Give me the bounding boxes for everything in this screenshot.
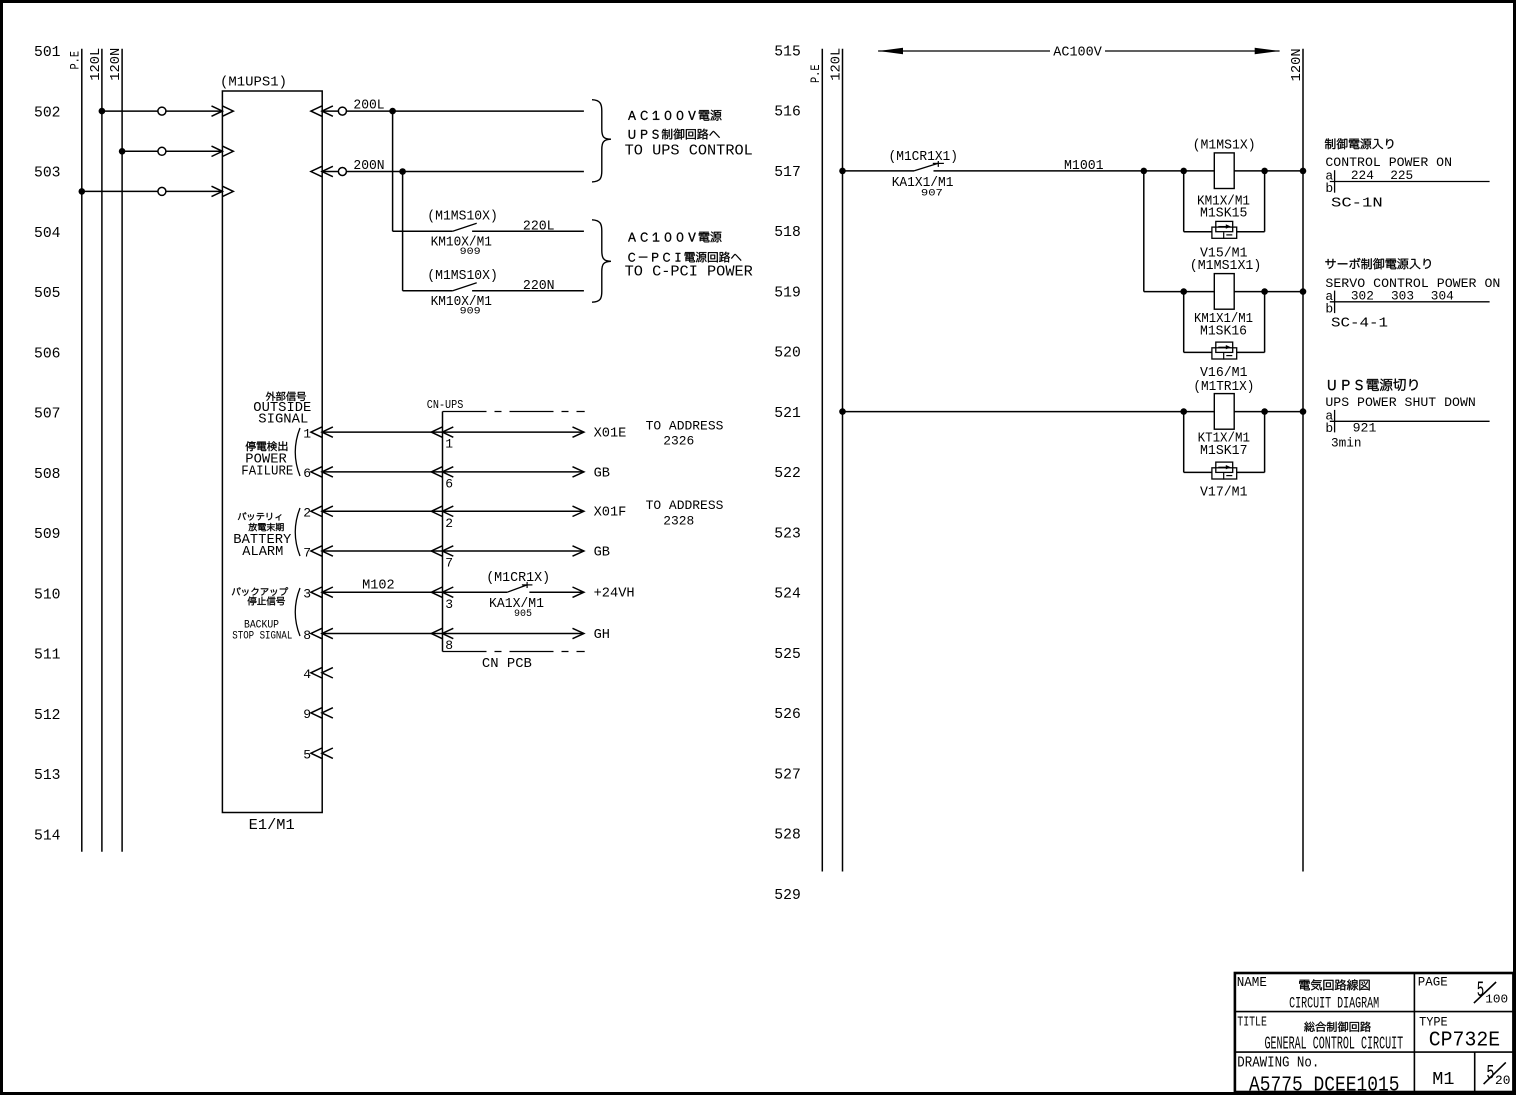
svg-text:100: 100 — [1485, 994, 1508, 1007]
svg-text:907: 907 — [921, 188, 943, 199]
svg-text:200N: 200N — [353, 158, 384, 174]
svg-text:(M1MS10X): (M1MS10X) — [427, 208, 498, 224]
svg-text:526: 526 — [774, 707, 801, 723]
wire UPS pin 2 to CN-UPS / signal X01F — [303, 506, 626, 531]
wire UPS pin 1 to CN-UPS / signal X01E — [303, 426, 626, 451]
net 120N (left rail) — [108, 48, 124, 852]
svg-text:M1SK17: M1SK17 — [1200, 443, 1248, 459]
wire 200L drop to 220L branch — [392, 111, 394, 231]
svg-text:9: 9 — [303, 707, 311, 722]
UPS pin 4 stub — [303, 667, 333, 682]
svg-text:CIRCUIT DIAGRAM: CIRCUIT DIAGRAM — [1289, 995, 1379, 1013]
label power failure — [241, 441, 293, 479]
svg-text:(M1TR1X): (M1TR1X) — [1193, 379, 1254, 395]
svg-text:512: 512 — [34, 708, 61, 724]
label outside signal (Japanese) — [253, 392, 311, 428]
brace pins 1-6 — [295, 428, 300, 476]
svg-text:(M1CR1X1): (M1CR1X1) — [889, 149, 959, 165]
svg-text:517: 517 — [774, 165, 801, 181]
svg-text:CN PCB: CN PCB — [482, 656, 532, 672]
wire UPS pin 6 to CN-UPS / signal GB — [303, 466, 610, 491]
svg-text:2: 2 — [303, 506, 311, 521]
wire UPS pin 7 to CN-UPS / signal GB — [303, 545, 610, 570]
svg-text:304: 304 — [1431, 288, 1454, 303]
varistor V15/M1 — [1184, 171, 1265, 262]
coil KM1X1/M1 (M1MS1X1) M1SK16 — [1190, 258, 1262, 340]
svg-text:SIGNAL: SIGNAL — [258, 411, 308, 427]
svg-text:X01E: X01E — [594, 427, 627, 442]
varistor V17/M1 — [1184, 412, 1265, 501]
svg-text:502: 502 — [34, 106, 61, 122]
svg-text:909: 909 — [460, 307, 481, 318]
svg-text:503: 503 — [34, 166, 61, 182]
svg-text:STOP SIGNAL: STOP SIGNAL — [232, 631, 292, 643]
svg-text:521: 521 — [774, 406, 801, 422]
svg-text:3: 3 — [303, 587, 311, 602]
svg-text:FAILURE: FAILURE — [241, 463, 293, 479]
svg-text:TITLE: TITLE — [1237, 1016, 1267, 1031]
svg-text:CN-UPS: CN-UPS — [427, 398, 464, 412]
svg-text:7: 7 — [303, 545, 311, 560]
right grid row labels 515-529 — [774, 44, 801, 904]
svg-text:3: 3 — [445, 597, 453, 612]
svg-text:1: 1 — [303, 426, 311, 441]
brace pins 3-8 — [295, 588, 300, 636]
svg-text:SC-1N: SC-1N — [1331, 196, 1383, 212]
svg-text:(M1MS1X1): (M1MS1X1) — [1190, 258, 1262, 274]
svg-text:b: b — [1325, 421, 1333, 436]
svg-text:TO C-PCI POWER: TO C-PCI POWER — [625, 264, 753, 281]
svg-text:TYPE: TYPE — [1419, 1014, 1448, 1029]
svg-text:515: 515 — [774, 44, 801, 60]
wire 200N drop to 220N branch — [402, 172, 404, 291]
svg-text:X01F: X01F — [594, 506, 627, 521]
svg-text:220N: 220N — [523, 278, 555, 294]
svg-text:8: 8 — [445, 638, 453, 653]
wire 200L output of UPS — [311, 98, 584, 117]
svg-text:AC100V: AC100V — [1053, 45, 1102, 61]
svg-text:1: 1 — [445, 437, 453, 452]
net P.E (left rail) — [68, 49, 83, 852]
svg-text:5: 5 — [303, 748, 311, 763]
svg-text:522: 522 — [774, 466, 801, 482]
svg-text:6: 6 — [445, 477, 453, 492]
svg-text:225: 225 — [1390, 168, 1413, 183]
svg-text:M102: M102 — [362, 577, 395, 593]
svg-text:PAGE: PAGE — [1418, 975, 1448, 990]
svg-text:GB: GB — [594, 466, 610, 481]
svg-text:120N: 120N — [108, 48, 124, 81]
svg-text:M1: M1 — [1432, 1070, 1454, 1090]
svg-text:516: 516 — [774, 105, 801, 121]
note CONTROL POWER ON / SC-1N — [1325, 138, 1490, 211]
svg-text:224: 224 — [1351, 168, 1374, 183]
note SERVO CONTROL POWER ON / SC-4-1 — [1325, 258, 1500, 332]
note UPS POWER SHUT DOWN / 3min — [1325, 379, 1489, 451]
svg-text:302: 302 — [1351, 288, 1374, 303]
svg-text:511: 511 — [34, 648, 61, 664]
wire row 521: 120L to coil KT1X — [839, 408, 1306, 415]
svg-text:3min: 3min — [1331, 435, 1362, 450]
coil KT1X/M1 (M1TR1X) M1SK17 timer — [1193, 379, 1254, 459]
UPS pin 5 stub — [303, 748, 333, 763]
wire 120N to UPS input — [119, 146, 234, 156]
svg-text:(M1MS10X): (M1MS10X) — [427, 268, 498, 284]
svg-text:(M1CR1X): (M1CR1X) — [486, 570, 550, 586]
svg-text:523: 523 — [774, 526, 801, 542]
svg-text:220L: 220L — [523, 218, 555, 234]
svg-text:520: 520 — [774, 346, 801, 362]
svg-text:510: 510 — [34, 587, 61, 603]
svg-text:2: 2 — [445, 516, 453, 531]
svg-text:501: 501 — [34, 45, 61, 61]
svg-text:120N: 120N — [1289, 48, 1305, 81]
svg-text:GB: GB — [594, 545, 610, 560]
svg-text:(M1MS1X): (M1MS1X) — [1193, 138, 1256, 154]
note TO ADDRESS 2326 — [646, 418, 724, 448]
svg-text:120L: 120L — [88, 48, 104, 81]
wire row 519 to 120N — [1180, 288, 1306, 295]
note TO ADDRESS 2328 — [646, 498, 724, 528]
svg-text:ALARM: ALARM — [242, 544, 283, 560]
svg-text:V17/M1: V17/M1 — [1200, 485, 1248, 501]
svg-text:P.E: P.E — [808, 64, 823, 83]
brace: AC100V to UPS control — [592, 100, 611, 182]
dimension arrow AC100V — [878, 45, 1280, 61]
svg-text:(M1UPS1): (M1UPS1) — [220, 75, 287, 91]
brace: AC100V to C-PCI power — [592, 220, 611, 302]
svg-text:GENERAL CONTROL CIRCUIT: GENERAL CONTROL CIRCUIT — [1265, 1034, 1404, 1054]
svg-text:7: 7 — [445, 556, 453, 571]
svg-text:b: b — [1325, 181, 1333, 196]
label AC100V UPS control (Japanese) — [625, 110, 753, 160]
svg-text:303: 303 — [1391, 288, 1414, 303]
coil KM1X/M1 (M1MS1X) M1SK15 — [1193, 138, 1256, 222]
wire drop M1001 row 517 to row 519 — [1143, 171, 1145, 292]
svg-text:TO ADDRESS: TO ADDRESS — [646, 418, 724, 433]
svg-text:TO UPS CONTROL: TO UPS CONTROL — [625, 143, 753, 160]
contact KM10X/M1 (M1MS10X) on 220L — [393, 208, 584, 258]
svg-text:509: 509 — [34, 527, 61, 543]
contact KA1X1/M1 (M1CR1X1) — [889, 149, 959, 199]
svg-text:909: 909 — [460, 247, 481, 258]
svg-text:NAME: NAME — [1237, 976, 1267, 991]
net 120L (left rail) — [88, 48, 104, 852]
svg-text:200L: 200L — [353, 98, 384, 114]
UPS unit E1/M1 (M1UPS1) block outline — [220, 75, 322, 835]
svg-text:507: 507 — [34, 407, 61, 423]
wire UPS pin 3 to CN-UPS / signal +24VH — [303, 587, 634, 612]
svg-text:A5775 DCEE1015: A5775 DCEE1015 — [1249, 1073, 1400, 1095]
svg-text:2328: 2328 — [663, 513, 694, 528]
wire UPS pin 8 to CN-UPS / signal GH — [303, 628, 610, 653]
svg-text:DRAWING No.: DRAWING No. — [1237, 1056, 1319, 1072]
svg-text:BACKUP: BACKUP — [244, 619, 279, 631]
connector CN-UPS bracket — [427, 398, 585, 672]
wire row 517: 120L to coil KM1X — [839, 168, 1306, 175]
svg-text:CONTROL POWER ON: CONTROL POWER ON — [1325, 155, 1452, 170]
svg-text:525: 525 — [774, 647, 801, 663]
contact KM10X/M1 (M1MS10X) on 220N — [403, 268, 584, 318]
wire 120L to UPS input (row 502) — [99, 106, 234, 116]
label battery alarm — [233, 512, 292, 560]
net 120N (right rail) — [1289, 48, 1305, 871]
svg-text:120L: 120L — [829, 48, 845, 81]
svg-text:2326: 2326 — [663, 434, 694, 449]
svg-text:518: 518 — [774, 225, 801, 241]
svg-text:504: 504 — [34, 226, 61, 242]
svg-text:905: 905 — [514, 609, 532, 620]
label AC100V C-PCI power (Japanese) — [625, 232, 753, 281]
svg-text:519: 519 — [774, 285, 801, 301]
net P.E (right rail) — [808, 49, 823, 872]
contact KA1X/M1 (M1CR1X) on +24VH wire — [362, 570, 550, 620]
svg-text:4: 4 — [303, 667, 311, 682]
net 120L (right rail) — [829, 48, 845, 872]
varistor V16/M1 — [1184, 292, 1265, 381]
svg-text:921: 921 — [1353, 421, 1377, 436]
svg-text:508: 508 — [34, 467, 61, 483]
svg-text:M1001: M1001 — [1064, 158, 1104, 174]
svg-text:+24VH: +24VH — [594, 587, 635, 602]
svg-text:SC-4-1: SC-4-1 — [1331, 316, 1388, 332]
svg-text:P.E: P.E — [68, 51, 83, 70]
svg-text:CP732E: CP732E — [1429, 1028, 1500, 1052]
svg-text:527: 527 — [774, 767, 801, 783]
svg-text:b: b — [1325, 302, 1333, 317]
svg-text:TO ADDRESS: TO ADDRESS — [646, 498, 724, 513]
svg-text:528: 528 — [774, 828, 801, 844]
wire 200N output of UPS — [311, 158, 584, 177]
svg-text:8: 8 — [303, 628, 311, 643]
svg-text:505: 505 — [34, 286, 61, 302]
svg-text:513: 513 — [34, 768, 61, 784]
svg-text:E1/M1: E1/M1 — [249, 817, 295, 834]
svg-text:GH: GH — [594, 628, 610, 643]
svg-text:M1SK16: M1SK16 — [1200, 324, 1247, 340]
svg-text:514: 514 — [34, 828, 61, 844]
svg-text:M1SK15: M1SK15 — [1200, 206, 1247, 222]
svg-text:6: 6 — [303, 466, 311, 481]
svg-text:529: 529 — [774, 888, 801, 904]
brace pins 2-7 — [295, 508, 300, 556]
title block — [1235, 973, 1514, 1095]
svg-text:506: 506 — [34, 346, 61, 362]
svg-text:20: 20 — [1495, 1073, 1510, 1088]
label backup stop signal — [232, 587, 292, 642]
wire P.E to UPS input — [79, 186, 234, 196]
svg-text:UPS POWER SHUT DOWN: UPS POWER SHUT DOWN — [1325, 395, 1475, 410]
svg-text:524: 524 — [774, 587, 801, 603]
left grid row labels 501-514 — [34, 45, 61, 844]
UPS pin 9 stub — [303, 707, 333, 722]
